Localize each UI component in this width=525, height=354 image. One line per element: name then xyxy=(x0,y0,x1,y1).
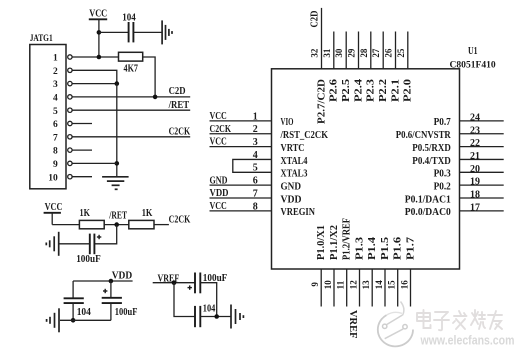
wire chip pin 6 stub xyxy=(210,184,272,186)
svg-text:P2.3: P2.3 xyxy=(366,79,377,102)
wire VDD rail down to C3 xyxy=(72,281,74,298)
watermark text dian (approximated) xyxy=(417,310,431,328)
svg-text:VRTC: VRTC xyxy=(281,143,305,154)
svg-text:GND: GND xyxy=(281,181,302,192)
svg-text:XTAL4: XTAL4 xyxy=(281,156,308,167)
wire chip bottom pin 9 xyxy=(320,269,322,307)
svg-text:6: 6 xyxy=(53,120,58,130)
svg-text:1K: 1K xyxy=(80,208,91,219)
capacitor C6 104 xyxy=(195,303,215,327)
wire C3 down to ground rail xyxy=(72,303,74,320)
svg-text:C2CK: C2CK xyxy=(169,127,191,138)
wire chip right pin 17 xyxy=(460,210,504,212)
wire chip bottom pin 16 xyxy=(410,269,412,307)
JATG1 pin 9 circle xyxy=(68,161,72,165)
wire R2 to junction xyxy=(104,224,129,226)
svg-text:16: 16 xyxy=(400,280,410,290)
wire JATG1 pin 9 xyxy=(72,162,117,164)
svg-text:P2.5: P2.5 xyxy=(341,79,352,102)
svg-text:4K7: 4K7 xyxy=(124,63,139,74)
svg-text:P2.0: P2.0 xyxy=(403,79,414,102)
capacitor C2 100uF (electrolytic) xyxy=(76,234,101,265)
wire chip pin 3 stub xyxy=(210,146,272,148)
svg-text:12: 12 xyxy=(349,280,359,290)
wire C4 down to ground rail xyxy=(110,303,112,320)
wire JATG1 pin 10 stub xyxy=(72,176,92,178)
wire chip bottom pin 14 xyxy=(384,269,386,307)
svg-text:P2.1: P2.1 xyxy=(390,79,401,102)
JATG1 pin 8 circle xyxy=(68,148,72,152)
svg-text:P0.7: P0.7 xyxy=(434,117,451,128)
wire chip top pin 30 xyxy=(345,32,347,69)
capacitor C5 100uF (electrolytic) xyxy=(188,273,228,294)
JATG1 pin 2 circle xyxy=(68,68,72,72)
svg-text:30: 30 xyxy=(334,48,344,58)
svg-text:23: 23 xyxy=(470,125,480,136)
svg-text:P0.6/CNVSTR: P0.6/CNVSTR xyxy=(396,130,452,141)
svg-text:VDD: VDD xyxy=(281,194,302,205)
svg-text:5: 5 xyxy=(253,163,258,174)
resistor R1 4K7 xyxy=(119,52,143,74)
svg-text:4: 4 xyxy=(253,150,258,161)
svg-text:VCC: VCC xyxy=(45,202,63,213)
svg-text:17: 17 xyxy=(470,202,480,213)
resistor R2 1K xyxy=(79,208,104,229)
watermark text you (approximated) xyxy=(488,311,502,329)
junction pin9 / chain xyxy=(115,161,120,166)
wire C5 right down to ground rail xyxy=(200,283,216,317)
svg-text:P2.2: P2.2 xyxy=(378,79,389,102)
svg-text:11: 11 xyxy=(336,280,346,289)
wire chip pin 1 stub xyxy=(210,120,272,122)
wire R1 right lead down to C2D node xyxy=(143,57,155,97)
wire R3 to C2CK xyxy=(154,224,169,226)
svg-text:VREF: VREF xyxy=(347,310,358,339)
svg-text:/RST_C2CK: /RST_C2CK xyxy=(280,130,329,141)
junction VCC / pin 1 xyxy=(97,55,102,60)
svg-text:9: 9 xyxy=(310,282,320,287)
wire VCC to R2 xyxy=(52,224,79,226)
svg-text:104: 104 xyxy=(122,13,136,24)
ground (left of C2) xyxy=(46,232,58,256)
svg-text:19: 19 xyxy=(470,177,480,188)
wire chip bottom pin 15 xyxy=(397,269,399,307)
wire chip right pin 21 xyxy=(460,158,504,160)
svg-text:P1.5: P1.5 xyxy=(380,237,391,260)
junction /RET node xyxy=(114,222,119,227)
watermark text zi (approximated) xyxy=(434,312,449,330)
ground (below JATG1) xyxy=(102,177,129,190)
wire JATG1 pin 8 stub xyxy=(72,149,92,151)
power symbol VCC (reset rail) xyxy=(44,202,63,224)
svg-text:P0.3: P0.3 xyxy=(434,169,451,180)
junction VREF xyxy=(172,280,177,285)
svg-text:P1.6: P1.6 xyxy=(393,237,404,260)
svg-text:28: 28 xyxy=(359,48,369,58)
JATG1 pin 10 circle xyxy=(68,175,72,179)
svg-text:14: 14 xyxy=(374,280,384,290)
JATG1 pin 1 circle xyxy=(68,55,72,59)
svg-text:GND: GND xyxy=(210,175,228,186)
resistor R3 1K xyxy=(129,208,154,229)
wire capacitor 104 to ground xyxy=(133,31,161,33)
wire VCC stem to capacitor 104 xyxy=(99,31,128,33)
svg-text:22: 22 xyxy=(470,138,480,149)
connector JATG1 body xyxy=(30,45,66,189)
wire chip bottom pin 11 xyxy=(346,269,348,307)
svg-text:VDD: VDD xyxy=(210,188,229,199)
svg-text:P1.4: P1.4 xyxy=(367,237,378,260)
svg-text:P1.2/VREF: P1.2/VREF xyxy=(342,218,353,260)
svg-text:P1.1/X2: P1.1/X2 xyxy=(329,225,340,260)
wire chip right pin 18 xyxy=(460,197,504,199)
svg-text:VIO: VIO xyxy=(281,117,294,128)
svg-text:/RET: /RET xyxy=(109,211,128,222)
svg-text:1: 1 xyxy=(253,111,258,122)
wire chip right pin 20 xyxy=(460,171,504,173)
wire VDD rail xyxy=(73,280,133,282)
svg-text:4: 4 xyxy=(53,94,58,104)
capacitor C4 100uF (electrolytic) xyxy=(102,289,138,318)
svg-text:32: 32 xyxy=(310,48,320,58)
svg-text:26: 26 xyxy=(384,48,394,58)
JATG1 pin 4 circle xyxy=(68,95,72,99)
JATG1 pin 7 circle xyxy=(68,135,72,139)
svg-text:U1: U1 xyxy=(468,46,478,57)
svg-text:7: 7 xyxy=(253,188,258,199)
wire JATG1 pin 1 to R1 xyxy=(72,56,118,58)
svg-text:P0.2: P0.2 xyxy=(434,181,451,192)
svg-text:1: 1 xyxy=(53,54,58,64)
wire JATG1 pin 5 (/RET net) xyxy=(72,109,190,111)
wire JATG1 pin 3 xyxy=(72,83,117,85)
wire chip right pin 23 xyxy=(460,133,504,135)
svg-text:P0.0/DAC0: P0.0/DAC0 xyxy=(405,207,451,218)
svg-text:P2.6: P2.6 xyxy=(329,79,340,102)
svg-text:15: 15 xyxy=(387,280,397,290)
wire JATG1 pin 4 (C2D net) xyxy=(72,96,190,98)
ground (right of C6) xyxy=(231,305,243,329)
wire C2 to ground xyxy=(59,243,90,245)
wire VREF junction down to C6 xyxy=(174,283,195,317)
wire JATG1 pin 2 to gnd chain xyxy=(72,70,117,83)
MCU U1 body xyxy=(272,69,460,269)
wire chip right pin 22 xyxy=(460,146,504,148)
wire chip top pin 26 xyxy=(395,32,397,69)
svg-text:10: 10 xyxy=(323,280,333,290)
capacitor C1 104 (top decoupling) xyxy=(122,13,136,43)
JATG1 pin 3 circle xyxy=(68,81,72,85)
svg-text:2: 2 xyxy=(53,67,58,77)
svg-text:P1.3: P1.3 xyxy=(354,237,365,260)
svg-text:10: 10 xyxy=(48,173,58,183)
svg-text:VDD: VDD xyxy=(112,271,133,282)
svg-text:20: 20 xyxy=(470,164,480,175)
wire chip bottom pin 13 xyxy=(371,269,373,307)
svg-text:3: 3 xyxy=(253,137,258,148)
svg-text:JATG1: JATG1 xyxy=(30,34,53,44)
wire chip pin 8 stub xyxy=(210,210,272,212)
svg-text:C2D: C2D xyxy=(309,11,320,28)
svg-text:100uF: 100uF xyxy=(115,307,138,318)
junction R1 / C2D xyxy=(153,95,158,100)
junction C3 / ground rail xyxy=(71,318,76,323)
junction pin3 / chain xyxy=(115,81,120,86)
wire VDD junction down to C4 xyxy=(110,281,112,298)
svg-text:100uF: 100uF xyxy=(76,254,101,265)
JATG1 pin 6 circle xyxy=(68,121,72,125)
wire ground rail (VDD group) xyxy=(60,319,111,321)
svg-text:XTAL3: XTAL3 xyxy=(281,169,308,180)
wire chip top pin 31 xyxy=(333,32,335,69)
svg-text:P0.5/RXD: P0.5/RXD xyxy=(412,143,451,154)
svg-text:/RET: /RET xyxy=(168,100,190,111)
wire JATG1 pin 6 stub xyxy=(72,123,92,125)
svg-text:7: 7 xyxy=(53,133,58,143)
JATG1 pin 5 circle xyxy=(68,108,72,112)
wire chip top pin 28 xyxy=(370,32,372,69)
ground (VDD group) xyxy=(47,308,59,332)
svg-text:18: 18 xyxy=(470,190,480,201)
svg-text:104: 104 xyxy=(77,307,91,318)
wire chip pin 32 (C2D net, long) xyxy=(321,8,323,69)
wire gnd chain vertical xyxy=(116,84,118,177)
wire chip right pin 19 xyxy=(460,184,504,186)
svg-text:104: 104 xyxy=(203,303,216,314)
svg-text:C2D: C2D xyxy=(169,86,186,97)
svg-text:P1.7: P1.7 xyxy=(405,237,416,260)
svg-text:6: 6 xyxy=(253,176,258,187)
svg-text:13: 13 xyxy=(361,280,371,290)
svg-text:C2CK: C2CK xyxy=(210,124,232,135)
junction C5 drop / ground wire xyxy=(214,314,219,319)
svg-text:31: 31 xyxy=(322,48,332,58)
svg-text:25: 25 xyxy=(396,48,406,58)
svg-text:P2.4: P2.4 xyxy=(353,79,364,102)
wire chip top pin 29 xyxy=(358,32,360,69)
wire JATG1 pin 7 (C2CK net) xyxy=(72,136,190,138)
svg-text:VCC: VCC xyxy=(89,9,107,20)
wire VREF rail xyxy=(153,282,195,284)
wire /RET node down to C2 xyxy=(94,225,116,244)
svg-text:1K: 1K xyxy=(142,208,153,219)
wire chip right pin 24 xyxy=(460,120,504,122)
svg-text:9: 9 xyxy=(53,160,58,170)
svg-text:P0.4/TXD: P0.4/TXD xyxy=(412,156,451,167)
wire chip top pin 27 xyxy=(382,32,384,69)
svg-text:VCC: VCC xyxy=(210,111,227,122)
junction on VCC stem to C1 xyxy=(97,30,102,35)
svg-text:5: 5 xyxy=(53,107,58,117)
svg-text:8: 8 xyxy=(53,147,58,157)
svg-text:C2CK: C2CK xyxy=(169,215,191,226)
svg-text:24: 24 xyxy=(470,112,480,123)
svg-text:27: 27 xyxy=(371,48,381,58)
capacitor C3 104 xyxy=(64,298,91,318)
wire C6 to ground xyxy=(200,316,230,318)
wire XTAL loop pins 4-5 xyxy=(233,159,272,172)
svg-text:P0.1/DAC1: P0.1/DAC1 xyxy=(405,194,451,205)
watermark logo circle xyxy=(378,302,413,347)
power symbol VCC (top) xyxy=(89,9,107,57)
svg-text:VCC: VCC xyxy=(210,201,227,212)
watermark text fa (approximated) xyxy=(453,311,467,329)
svg-text:21: 21 xyxy=(470,151,480,162)
svg-text:VREGIN: VREGIN xyxy=(281,207,316,218)
svg-text:www.elecfans.com: www.elecfans.com xyxy=(420,333,515,348)
junction VDD / C4 xyxy=(109,279,114,284)
wire chip pin 7 stub xyxy=(210,197,272,199)
svg-text:VCC: VCC xyxy=(210,137,227,148)
wire chip top pin 25 xyxy=(407,32,409,69)
svg-text:29: 29 xyxy=(347,48,357,58)
svg-text:P1.0/X1: P1.0/X1 xyxy=(316,225,327,260)
ground (top right of C1) xyxy=(162,20,172,44)
watermark text shao (approximated) xyxy=(471,310,485,329)
svg-text:3: 3 xyxy=(53,80,58,90)
wire chip bottom pin 12 xyxy=(359,269,361,307)
svg-text:P2.7/C2D: P2.7/C2D xyxy=(316,79,327,124)
svg-text:2: 2 xyxy=(253,124,258,135)
wire chip pin 2 stub xyxy=(210,133,272,135)
wire chip bottom pin 10 xyxy=(333,269,335,307)
svg-text:8: 8 xyxy=(253,201,258,212)
